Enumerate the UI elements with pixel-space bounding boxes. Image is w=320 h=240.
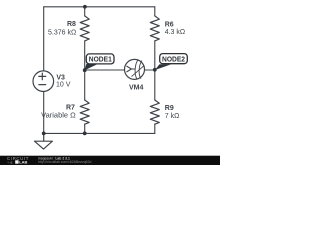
wire left <box>43 7 45 134</box>
wire middle branch upper <box>84 7 86 16</box>
wire middle branch center <box>84 41 86 100</box>
wire middle branch lower <box>84 124 86 133</box>
node pointer NODE2 <box>155 64 171 70</box>
junction node: R7 bottom <box>83 132 87 136</box>
voltmeter VM4 <box>125 59 145 79</box>
svg-text:∿⍺: ∿⍺ <box>7 161 13 165</box>
svg-text:http://circuitlab.com/c6248bsr: http://circuitlab.com/c6248bsrzq62d <box>38 160 91 164</box>
svg-text:R8: R8 <box>67 21 76 28</box>
svg-text:R9: R9 <box>165 105 174 112</box>
svg-text:V3: V3 <box>56 74 65 81</box>
junction node: R8 top <box>83 5 87 9</box>
wire top <box>44 6 155 8</box>
wire right lower <box>154 124 156 133</box>
wire right upper <box>154 7 156 16</box>
svg-text:NODE2: NODE2 <box>162 54 185 63</box>
node label NODE1 <box>86 54 114 64</box>
node pointer NODE1 <box>84 64 98 71</box>
resistor R9 <box>150 100 159 124</box>
svg-text:5.376 kΩ: 5.376 kΩ <box>48 29 76 36</box>
svg-text:10 V: 10 V <box>56 82 71 89</box>
svg-text:7 kΩ: 7 kΩ <box>165 113 180 120</box>
svg-text:R6: R6 <box>165 21 174 28</box>
wire right middle <box>154 41 156 100</box>
node label NODE2 <box>160 54 188 64</box>
svg-text:NODE1: NODE1 <box>89 55 112 64</box>
wire bottom <box>44 132 155 134</box>
svg-text:LAB: LAB <box>19 160 27 165</box>
wire voltmeter horizontal <box>85 69 155 71</box>
junction node A (NODE1) <box>83 68 87 72</box>
junction node: bottom-left / ground <box>42 132 46 136</box>
resistor R8 <box>80 16 89 41</box>
junction node B (NODE2) <box>153 68 157 72</box>
ground <box>35 133 53 149</box>
svg-text:VM4: VM4 <box>129 85 144 92</box>
voltage source V3 <box>33 71 54 92</box>
svg-text:4.3 kΩ: 4.3 kΩ <box>165 29 185 36</box>
resistor R6 <box>150 16 159 41</box>
footer bar <box>0 156 220 165</box>
svg-text:R7: R7 <box>66 105 75 112</box>
svg-text:Variable Ω: Variable Ω <box>41 113 76 120</box>
resistor R7 <box>80 100 89 124</box>
